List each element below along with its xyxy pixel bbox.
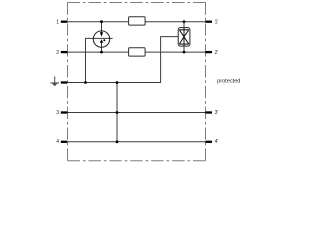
junction node on line 1 at suppressor bbox=[183, 20, 186, 23]
ground symbol bbox=[51, 76, 60, 86]
wire line 3 (terminal 3 to 3') bbox=[61, 112, 212, 114]
terminal 3 mark bbox=[61, 111, 68, 113]
wire suppressor branch (line1 to line2) bbox=[183, 22, 185, 52]
wire gas tube bottom electrode (spark gap down to line2) bbox=[101, 42, 103, 52]
wire line 4 (terminal 4 to 4') bbox=[61, 141, 212, 143]
svg-text:2: 2 bbox=[56, 50, 59, 56]
suppressor diode U1 (bidirectional TVS) bbox=[178, 28, 190, 46]
gas discharge tube F1 bbox=[93, 31, 109, 47]
svg-text:4': 4' bbox=[215, 139, 219, 145]
terminal 4 mark bbox=[61, 141, 68, 143]
terminal ground mark bbox=[61, 81, 68, 83]
svg-text:3': 3' bbox=[215, 110, 219, 116]
terminal 3' mark bbox=[205, 111, 212, 113]
wire ground bus bbox=[61, 37, 184, 83]
wire gas tube centre electrode to ground bus bbox=[86, 38, 113, 82]
svg-text:1: 1 bbox=[56, 19, 59, 25]
terminal 2' mark bbox=[205, 51, 212, 53]
protective device boundary (dash-dot border) bbox=[68, 3, 206, 161]
junction node on ground bus at drop wire bbox=[116, 81, 119, 84]
wire gas tube top electrode (line1 down to spark gap) bbox=[101, 22, 103, 33]
terminal 1 mark bbox=[61, 21, 68, 23]
wire ground bus drop to line 4 bbox=[116, 83, 118, 142]
junction node on line 1 at gas tube bbox=[100, 20, 103, 23]
terminal 2 mark bbox=[61, 51, 68, 53]
svg-text:1': 1' bbox=[215, 19, 219, 25]
svg-text:3: 3 bbox=[56, 110, 59, 116]
resistor R2 bbox=[129, 48, 146, 56]
wire line 2 (terminal 2 to 2') bbox=[61, 51, 212, 53]
wire line 1 (terminal 1 to 1') bbox=[61, 21, 212, 23]
junction node on line 3 bbox=[116, 111, 119, 114]
svg-text:4: 4 bbox=[56, 139, 59, 145]
resistor R1 bbox=[129, 17, 146, 25]
svg-text:2': 2' bbox=[215, 50, 219, 56]
junction node on line 2 at suppressor bbox=[183, 51, 186, 54]
svg-text:protected: protected bbox=[217, 78, 240, 84]
junction node on line 2 at gas tube bbox=[100, 51, 103, 54]
junction node on line 4 bbox=[116, 140, 119, 143]
junction node on ground bus at gas tube drop bbox=[84, 81, 87, 84]
terminal 4' mark bbox=[205, 141, 212, 143]
terminal 1' mark bbox=[205, 21, 212, 23]
